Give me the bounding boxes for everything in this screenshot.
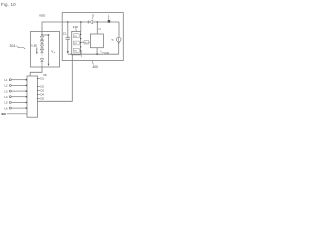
current source Tr circle [116, 37, 121, 42]
svg-text:410: 410 [73, 25, 78, 29]
svg-text:Tr: Tr [111, 38, 113, 42]
svg-text:VDD: VDD [39, 13, 46, 17]
svg-text:L6: L6 [5, 106, 8, 110]
resistor Rd gate link [81, 41, 91, 43]
svg-text:L: L [108, 14, 110, 18]
wire 410 supply from VDD bus [80, 21, 82, 23]
block R2 inside 410 [73, 41, 79, 45]
block R1 inside 410 [73, 34, 79, 38]
control IC 410 box [72, 31, 81, 54]
svg-text:Lf: Lf [99, 28, 101, 31]
pins of 410 right edge [80, 34, 81, 52]
node junction dot at LED anode [41, 34, 43, 36]
pin junction dots on connector [26, 79, 28, 109]
svg-text:D4: D4 [41, 93, 45, 97]
svg-text:400: 400 [93, 65, 99, 69]
svg-text:L5: L5 [5, 101, 8, 105]
connector box CN [27, 76, 38, 117]
svg-text:VD: VD [43, 73, 47, 77]
svg-text:D2: D2 [41, 85, 45, 89]
svg-text:D11: D11 [10, 44, 16, 48]
svg-text:CIN: CIN [104, 51, 109, 55]
svg-text:C1: C1 [63, 32, 67, 36]
label CIN with leader [100, 51, 104, 53]
diode D on VDD bus [87, 20, 89, 23]
svg-text:L2: L2 [5, 84, 8, 88]
inductor L block on bus [108, 20, 111, 23]
capacitor C1 [67, 21, 69, 23]
svg-text:F: F [54, 52, 56, 54]
wire drain stub with label Lf [96, 21, 98, 23]
ground bus wire [68, 53, 119, 55]
right pin labels of connector [41, 73, 47, 100]
LED D11a [40, 36, 43, 61]
wire VDD horizontal bus to right block [42, 22, 119, 35]
wire internal anode node [42, 34, 49, 36]
arrow below Tr [118, 42, 120, 44]
wire source stub to ground bus [96, 48, 98, 55]
svg-text:L4: L4 [5, 95, 8, 99]
LED D11d [40, 49, 43, 52]
wire Tr to ground bus [118, 42, 120, 54]
wire LED cathode to connector [30, 67, 42, 76]
svg-text:D5: D5 [41, 97, 45, 101]
svg-text:L3: L3 [5, 89, 8, 93]
svg-text:L1: L1 [5, 78, 8, 82]
LED D11c [40, 45, 43, 48]
svg-text:EN: EN [2, 112, 6, 116]
wire right drop to Tr [118, 22, 120, 37]
driver block 400 outer box [62, 13, 123, 61]
node dot at VF tap [48, 34, 50, 36]
svg-text:LED: LED [33, 45, 38, 48]
svg-text:D1: D1 [41, 77, 45, 81]
svg-text:D3: D3 [41, 89, 45, 93]
pin 1 left [5, 78, 8, 110]
wire LED chain segments [41, 39, 43, 40]
stub at 410 bottom right pin [81, 51, 83, 57]
wire connector GND to driver block [38, 55, 73, 102]
LED D11b [40, 41, 43, 44]
svg-text:Fig. 10: Fig. 10 [1, 2, 16, 7]
switching element box [90, 34, 103, 48]
LED D11n last [40, 59, 43, 62]
LED array box (D11 module) [31, 32, 60, 68]
block R3 inside 410 [73, 48, 79, 52]
